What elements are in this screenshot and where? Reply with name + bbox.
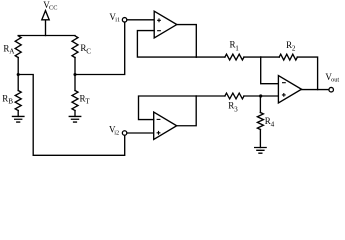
wire RA to junction: [17, 58, 19, 75]
wire RC to junction: [74, 58, 76, 75]
wire junction RA-RB to Vi2 node: [18, 75, 125, 156]
svg-text:i1: i1: [115, 17, 120, 24]
resistor R1: [225, 54, 244, 60]
U1 minus sign: [157, 30, 161, 32]
svg-text:2: 2: [292, 45, 296, 53]
wire Vi1 to U1 + input: [127, 19, 154, 21]
node junction RA-RB: [17, 73, 20, 76]
resistor RB: [15, 91, 21, 111]
wire U2 feedback: [139, 96, 197, 120]
svg-text:C: C: [86, 48, 91, 56]
svg-text:1: 1: [235, 44, 239, 52]
op-amp U2: [154, 112, 177, 139]
resistor R3: [225, 93, 244, 99]
op-amp U1: [154, 11, 177, 38]
wire R3 to noninverting node: [244, 95, 261, 97]
svg-text:T: T: [85, 98, 90, 106]
wire U1 output: [177, 25, 197, 58]
U3 plus sign: [282, 93, 286, 97]
svg-text:3: 3: [234, 106, 238, 114]
ground left: [12, 116, 25, 122]
svg-text:4: 4: [271, 121, 275, 129]
wire R4 to ground: [259, 130, 261, 148]
op-amp U3: [278, 76, 301, 103]
U2 plus sign: [157, 131, 161, 135]
wire junction to RT: [74, 75, 76, 91]
wire U2 output: [177, 96, 197, 126]
svg-text:out: out: [331, 76, 339, 83]
node Vi1 terminal: [122, 18, 127, 23]
wire R1 to inverting node: [244, 56, 261, 58]
wire VCC rail: [18, 35, 75, 37]
wire junction to RB: [17, 75, 19, 91]
resistor RA: [15, 36, 21, 58]
node junction R3-R4: [259, 94, 262, 97]
wire U3 output: [302, 88, 330, 90]
wire Vi2 to U2 + input: [127, 132, 154, 134]
power VCC symbol: [45, 20, 47, 36]
ground below R4: [254, 148, 267, 154]
resistor RT: [72, 91, 78, 111]
U3 minus sign: [282, 82, 286, 84]
resistor R4: [257, 113, 263, 130]
wire U1 node to R1: [196, 56, 225, 58]
node Vi2 terminal: [122, 131, 127, 136]
resistor R2: [279, 54, 297, 60]
wire U2 node to R3: [196, 95, 225, 97]
node Vout terminal: [329, 87, 334, 92]
wire noninverting node to U3 + input: [261, 95, 279, 97]
svg-text:A: A: [9, 48, 15, 56]
wire RT to ground: [74, 111, 76, 117]
node junction RC-RT: [73, 73, 76, 76]
wire RB to ground: [17, 111, 19, 117]
svg-text:B: B: [8, 98, 13, 106]
wire inverting node down to U3 - input: [261, 57, 279, 84]
ground below RT: [69, 116, 82, 122]
svg-text:i2: i2: [114, 130, 119, 137]
wire junction RC-RT to Vi1 node: [75, 22, 125, 74]
U2 minus sign: [157, 118, 161, 120]
wire R2 to output node: [297, 57, 317, 90]
svg-text:CC: CC: [49, 5, 57, 12]
U1 plus sign: [157, 18, 161, 22]
wire U1 feedback: [137, 31, 196, 57]
wire node to R4: [259, 96, 261, 113]
resistor RC: [72, 36, 78, 58]
wire inverting node to R2: [261, 56, 280, 58]
